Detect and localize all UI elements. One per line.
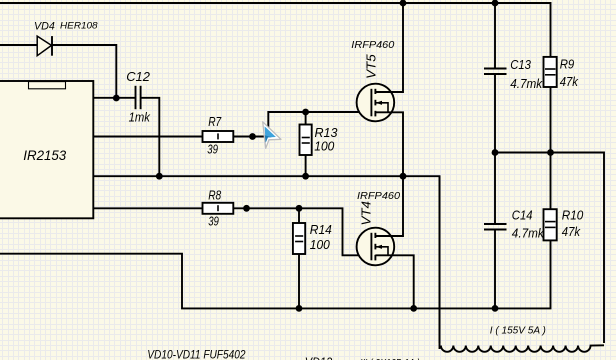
svg-text:R8: R8: [208, 188, 222, 203]
svg-text:IRFP460: IRFP460: [357, 190, 400, 202]
wire mid rail: [495, 153, 604, 344]
wire R7 to VT5 gate: [233, 112, 371, 137]
node dot half-bridge midpoint: [400, 173, 407, 180]
svg-text:47k: 47k: [560, 74, 580, 89]
node dot after R8: [243, 205, 250, 212]
svg-text:C12: C12: [126, 69, 150, 84]
wire pin3 long rail: [93, 176, 439, 343]
wire diode anode lead: [0, 44, 38, 46]
svg-text:47k: 47k: [562, 224, 582, 239]
transistor VT5 (IRFP460 MOSFET): [357, 3, 403, 176]
wire left lower from pin: [0, 240, 551, 308]
svg-text:VD10-VD11 FUF5402: VD10-VD11 FUF5402: [147, 350, 246, 360]
diode VD4: [37, 36, 52, 56]
node dot R9/R10 mid: [547, 149, 554, 156]
node dot R14 bottom: [296, 305, 303, 312]
resistor R10: [544, 153, 557, 241]
wire R8 to VT4 gate: [233, 208, 373, 255]
node dot R13 bottom: [302, 173, 309, 180]
IC U1 IR2153 box: [0, 81, 93, 218]
transistor VT4 (IRFP460 MOSFET): [357, 176, 414, 308]
wire diode cathode to C12 node: [52, 45, 116, 98]
wire top rail: [0, 3, 551, 57]
node dot C12 return: [156, 173, 163, 180]
svg-text:C14: C14: [512, 208, 533, 223]
node dot C13 top rail: [492, 0, 499, 6]
node dot VT5 drain on top rail: [400, 0, 407, 6]
resistor R7: [203, 131, 234, 142]
wire pin2 to R7: [93, 136, 202, 138]
svg-text:R9: R9: [560, 56, 575, 71]
capacitor C14: [484, 224, 507, 230]
svg-text:IRFP460: IRFP460: [351, 39, 394, 51]
wire C13 branch vertical: [494, 3, 496, 308]
svg-text:100: 100: [314, 139, 335, 154]
svg-text:4.7mk: 4.7mk: [510, 76, 543, 91]
transformer primary winding I: [440, 176, 605, 352]
node dot C14 bottom: [492, 305, 499, 312]
svg-text:1mk: 1mk: [129, 109, 152, 124]
node dot after R7: [249, 133, 256, 140]
capacitor C13: [484, 69, 507, 75]
resistor R8: [203, 203, 234, 214]
svg-text:39: 39: [208, 213, 219, 228]
svg-text:VT5: VT5: [363, 54, 378, 79]
svg-text:C13: C13: [510, 57, 531, 72]
svg-text:VT4: VT4: [359, 201, 374, 226]
resistor R9: [544, 57, 557, 153]
svg-text:R7: R7: [208, 114, 222, 129]
svg-text:R10: R10: [562, 208, 584, 223]
node dot diode/C12 junction: [113, 95, 120, 102]
node dot VT4 source bottom: [410, 305, 417, 312]
wire C12 right to lower rail: [141, 98, 159, 176]
svg-text:HER108: HER108: [60, 21, 98, 32]
wire pin4 to R8: [93, 207, 202, 209]
svg-text:100: 100: [310, 237, 331, 252]
wire pin1 to C12: [93, 97, 135, 99]
svg-text:39: 39: [207, 141, 218, 156]
node dot R14 top: [296, 205, 303, 212]
svg-text:4.7mk: 4.7mk: [512, 225, 545, 240]
resistor R13: [300, 112, 312, 176]
svg-text:VD4: VD4: [34, 20, 55, 32]
svg-text:IR2153: IR2153: [23, 148, 66, 163]
node dot C13/C14 mid: [492, 149, 499, 156]
node dot R13 top: [302, 109, 309, 116]
svg-text:I ( 155V 5A ): I ( 155V 5A ): [490, 325, 546, 336]
mouse cursor: [263, 122, 281, 149]
svg-text:R14: R14: [310, 222, 332, 237]
capacitor C12: [136, 86, 141, 109]
resistor R14: [293, 208, 305, 308]
